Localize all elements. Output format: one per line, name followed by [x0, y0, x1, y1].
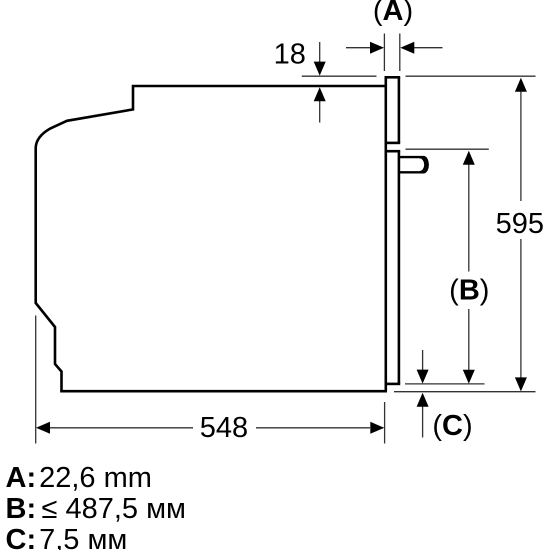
front panel left edge — [384, 77, 387, 391]
oven body bottom line — [60, 390, 387, 393]
door seam lower — [385, 150, 401, 153]
svg-text:595: 595 — [496, 208, 544, 240]
dimension line (A) left arrow stem — [346, 47, 371, 49]
dimension line 548 right segment — [256, 427, 370, 429]
extension line panel-top right — [406, 75, 536, 77]
door seam upper — [385, 142, 401, 145]
extension line panel-top left — [302, 75, 377, 77]
extension line (A) left — [383, 34, 385, 72]
arrowhead 595 down — [515, 377, 527, 391]
front panel top edge — [385, 76, 401, 79]
dimension line (B) upper segment — [468, 165, 470, 272]
extension line body-bottom right — [394, 391, 536, 393]
arrowhead 18 up — [314, 87, 326, 101]
arrowhead (A) left — [370, 42, 384, 54]
front panel right edge upper — [398, 77, 401, 143]
extension line (A) right — [399, 34, 401, 72]
arrowhead 548 right — [370, 422, 384, 434]
arrowhead (B) down — [463, 370, 475, 384]
svg-text:(C): (C) — [432, 410, 472, 442]
dimension line 595 upper segment — [520, 92, 522, 202]
svg-text:548: 548 — [200, 412, 248, 444]
dimension line 595 lower segment — [520, 239, 522, 378]
door handle knob outline — [400, 157, 428, 172]
front panel right edge lower — [398, 151, 401, 384]
extension line 548 right — [384, 402, 386, 444]
arrowhead 18 down — [314, 62, 326, 76]
arrowhead 595 up — [515, 78, 527, 92]
extension line panel-bottom right — [405, 383, 485, 385]
dimension line (B) lower segment — [468, 309, 470, 370]
svg-text:C:7,5 мм: C:7,5 мм — [6, 524, 128, 550]
arrowhead (A) right — [400, 42, 414, 54]
svg-text:(B): (B) — [449, 275, 489, 307]
dimension line (C) lower arrow stem — [422, 407, 424, 438]
svg-text:B:≤ 487,5 мм: B:≤ 487,5 мм — [6, 493, 186, 525]
door handle knob end-cap arc — [420, 157, 426, 172]
oven body outline — [36, 86, 386, 391]
dimension line 18 lower arrow stem — [319, 101, 321, 123]
arrowhead 548 left — [36, 422, 50, 434]
dimension line (A) right arrow stem — [414, 47, 443, 49]
svg-text:(A): (A) — [373, 0, 413, 27]
dimension line (C) upper arrow stem — [422, 350, 424, 370]
arrowhead (B) up — [463, 151, 475, 165]
arrowhead (C) down — [417, 370, 429, 384]
dimension line 548 left segment — [50, 427, 193, 429]
extension line (B) top — [406, 148, 489, 150]
arrowhead (C) up — [417, 393, 429, 407]
svg-text:18: 18 — [274, 38, 306, 70]
svg-text:A:22,6 mm: A:22,6 mm — [6, 462, 152, 494]
front panel bottom edge — [385, 383, 401, 386]
dimension line 18 upper arrow stem — [319, 42, 321, 62]
extension line 548 left — [35, 316, 37, 444]
